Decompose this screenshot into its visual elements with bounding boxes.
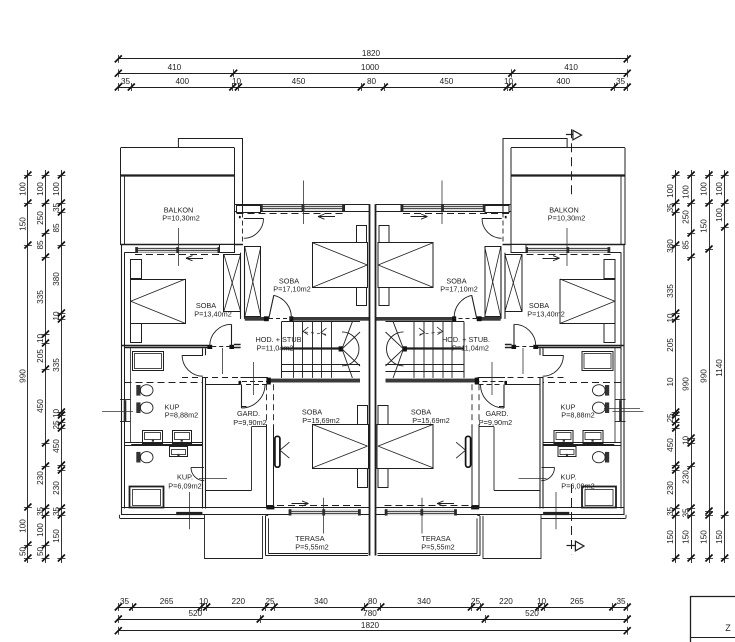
svg-text:150: 150	[682, 530, 691, 544]
svg-text:335: 335	[36, 290, 45, 304]
svg-text:150: 150	[666, 530, 675, 544]
svg-text:KUP.: KUP.	[560, 473, 576, 482]
svg-text:100: 100	[715, 182, 724, 196]
svg-text:250: 250	[682, 210, 691, 224]
svg-text:990: 990	[682, 377, 691, 391]
svg-text:10: 10	[682, 436, 691, 446]
svg-text:410: 410	[168, 63, 182, 72]
svg-text:100: 100	[18, 519, 27, 533]
svg-text:85: 85	[36, 240, 45, 250]
svg-text:10: 10	[52, 409, 61, 419]
svg-text:P=8,88m2: P=8,88m2	[165, 411, 198, 420]
svg-text:230: 230	[666, 481, 675, 495]
svg-text:450: 450	[292, 77, 306, 86]
svg-text:80: 80	[367, 77, 377, 86]
svg-text:380: 380	[52, 272, 61, 286]
svg-text:450: 450	[440, 77, 454, 86]
svg-text:10: 10	[666, 313, 675, 323]
svg-text:990: 990	[18, 369, 27, 383]
svg-text:P=6,09m2: P=6,09m2	[168, 482, 201, 491]
svg-text:10: 10	[504, 77, 514, 86]
svg-text:GARD.: GARD.	[485, 409, 508, 418]
svg-text:10: 10	[537, 597, 547, 606]
svg-text:150: 150	[52, 529, 61, 543]
svg-text:35: 35	[121, 77, 131, 86]
svg-text:25: 25	[52, 420, 61, 430]
svg-text:265: 265	[160, 597, 174, 606]
svg-text:50: 50	[36, 547, 45, 557]
svg-text:25: 25	[666, 413, 675, 423]
svg-text:10: 10	[232, 77, 242, 86]
svg-text:150: 150	[700, 530, 709, 544]
svg-text:35: 35	[36, 507, 45, 517]
svg-text:520: 520	[188, 609, 202, 618]
svg-text:P=9,90m2: P=9,90m2	[233, 418, 266, 427]
svg-text:P=5,55m2: P=5,55m2	[295, 543, 328, 552]
svg-text:400: 400	[556, 77, 570, 86]
svg-text:35: 35	[120, 597, 130, 606]
svg-text:100: 100	[715, 208, 724, 222]
svg-text:205: 205	[666, 338, 675, 352]
svg-text:100: 100	[36, 182, 45, 196]
svg-text:35: 35	[666, 203, 675, 213]
svg-text:85: 85	[682, 240, 691, 250]
svg-text:P=5,55m2: P=5,55m2	[421, 543, 454, 552]
svg-text:380: 380	[666, 239, 675, 253]
svg-text:35: 35	[616, 597, 626, 606]
svg-text:100: 100	[682, 185, 691, 199]
svg-text:220: 220	[231, 597, 245, 606]
svg-text:10: 10	[52, 311, 61, 321]
svg-text:150: 150	[715, 530, 724, 544]
svg-text:410: 410	[564, 63, 578, 72]
svg-text:450: 450	[36, 399, 45, 413]
svg-text:100: 100	[18, 182, 27, 196]
svg-text:100: 100	[666, 184, 675, 198]
svg-text:10: 10	[666, 377, 675, 387]
svg-text:100: 100	[36, 523, 45, 537]
svg-text:P=10,30m2: P=10,30m2	[162, 214, 200, 223]
svg-text:10: 10	[199, 597, 209, 606]
svg-text:P=11,04m2: P=11,04m2	[257, 344, 294, 353]
svg-text:100: 100	[700, 182, 709, 196]
svg-text:265: 265	[570, 597, 584, 606]
svg-text:GARD.: GARD.	[237, 409, 260, 418]
svg-text:P=6,09m2: P=6,09m2	[561, 482, 594, 491]
svg-text:150: 150	[18, 217, 27, 231]
svg-text:990: 990	[700, 369, 709, 383]
svg-text:P=13,40m2: P=13,40m2	[527, 310, 565, 319]
svg-text:P=10,30m2: P=10,30m2	[548, 214, 586, 223]
svg-text:P=15,69m2: P=15,69m2	[302, 416, 340, 425]
svg-text:80: 80	[368, 597, 378, 606]
svg-text:10: 10	[36, 334, 45, 344]
svg-text:P=17,10m2: P=17,10m2	[273, 285, 311, 294]
svg-text:220: 220	[499, 597, 513, 606]
svg-text:35: 35	[682, 508, 691, 518]
svg-text:250: 250	[36, 211, 45, 225]
svg-text:780: 780	[363, 609, 377, 618]
svg-text:KUP.: KUP.	[177, 473, 193, 482]
svg-text:P=13,40m2: P=13,40m2	[194, 310, 232, 319]
svg-text:230: 230	[682, 470, 691, 484]
svg-text:35: 35	[52, 507, 61, 517]
svg-text:205: 205	[36, 349, 45, 363]
svg-text:P=9,90m2: P=9,90m2	[479, 418, 512, 427]
svg-text:230: 230	[36, 471, 45, 485]
svg-text:1820: 1820	[362, 49, 381, 58]
svg-text:P=15,69m2: P=15,69m2	[412, 416, 450, 425]
svg-text:50: 50	[18, 547, 27, 557]
svg-text:25: 25	[471, 597, 481, 606]
svg-text:35: 35	[666, 507, 675, 517]
svg-text:400: 400	[175, 77, 189, 86]
svg-text:335: 335	[666, 284, 675, 298]
svg-text:25: 25	[265, 597, 275, 606]
svg-text:1140: 1140	[715, 359, 724, 377]
svg-text:Z: Z	[725, 623, 731, 633]
svg-text:P=8,88m2: P=8,88m2	[561, 411, 594, 420]
svg-text:150: 150	[700, 219, 709, 233]
svg-text:35: 35	[616, 77, 626, 86]
svg-text:520: 520	[525, 609, 539, 618]
svg-text:P=11,04m2: P=11,04m2	[452, 344, 489, 353]
svg-text:1000: 1000	[361, 63, 380, 72]
svg-text:100: 100	[52, 182, 61, 196]
svg-text:35: 35	[52, 203, 61, 213]
svg-text:340: 340	[314, 597, 328, 606]
svg-text:1820: 1820	[361, 621, 380, 630]
svg-text:450: 450	[666, 438, 675, 452]
svg-text:450: 450	[52, 439, 61, 453]
svg-text:340: 340	[417, 597, 431, 606]
svg-text:230: 230	[52, 481, 61, 495]
svg-text:85: 85	[52, 223, 61, 233]
svg-text:335: 335	[52, 358, 61, 372]
svg-text:P=17,10m2: P=17,10m2	[440, 285, 478, 294]
